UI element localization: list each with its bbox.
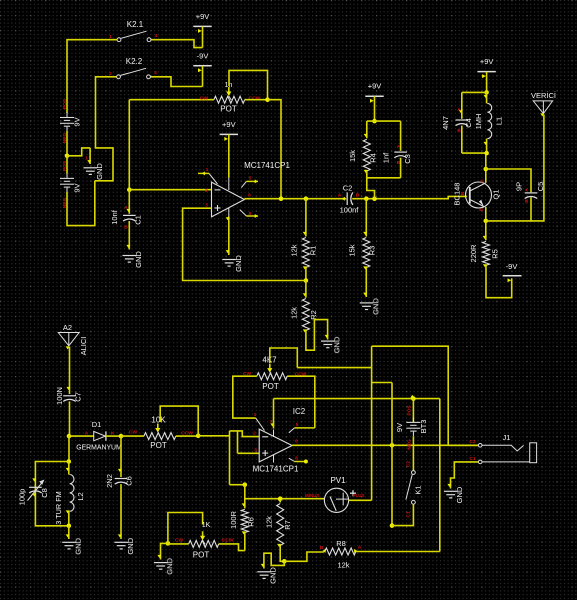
wire Q1 emitter [485, 207, 487, 221]
svg-text:15k: 15k [348, 244, 357, 256]
svg-text:L2: L2 [76, 492, 85, 500]
wire node to POT2 CW [121, 435, 144, 437]
svg-text:C: C [480, 179, 486, 183]
svg-text:12k: 12k [290, 244, 299, 256]
svg-text:B: B [320, 545, 324, 551]
ground GND8 (C6) [114, 542, 128, 549]
power -9V (R5) [503, 262, 522, 283]
wire POT3 CCW to R6 bottom [219, 544, 245, 551]
svg-text:R8: R8 [336, 539, 346, 548]
C8 tick bottom [32, 493, 36, 496]
wire R8 left lead [284, 552, 324, 561]
U1 pin7 white lead [228, 178, 230, 191]
resistor R4 [363, 139, 370, 171]
svg-text:B: B [460, 191, 466, 195]
POT4K7 wiper [267, 364, 272, 377]
junction R7 top [278, 496, 283, 501]
svg-text:B: B [457, 128, 461, 134]
svg-text:R7: R7 [283, 520, 292, 530]
wire K2.1 pin4 to +9V [151, 40, 203, 48]
svg-text:R2: R2 [309, 310, 318, 320]
potentiometer POT2 body [144, 433, 176, 440]
L1 tick top [484, 95, 488, 98]
wire R7 bottom lead [280, 546, 284, 562]
wire GND1 lead [89, 148, 91, 164]
J1 sleeve terminal circle [478, 460, 482, 464]
wire jog to pin2 [230, 431, 259, 437]
battery BT3 9V [406, 417, 420, 436]
svg-text:9P: 9P [515, 182, 524, 191]
svg-text:12k: 12k [265, 516, 274, 528]
POT3 wiper [200, 531, 205, 544]
svg-text:4N7: 4N7 [441, 116, 450, 130]
svg-text:3: 3 [254, 448, 257, 454]
power +9V (tank) [477, 57, 495, 92]
antenna A1 VERICI [533, 101, 552, 114]
svg-text:K2.2: K2.2 [126, 57, 143, 66]
junction D1/C6/POT2 [119, 434, 124, 439]
R4 tick bottom [364, 170, 368, 173]
svg-text:C7: C7 [74, 392, 83, 402]
svg-text:8: 8 [295, 456, 298, 462]
svg-text:C2: C2 [406, 461, 412, 468]
resistor R5 [483, 241, 490, 265]
wire R5 to -9V [486, 265, 512, 297]
wire POT2 wiper loop [160, 406, 198, 436]
wire tank bottom bar [462, 152, 487, 154]
resistor R8 [325, 548, 356, 555]
svg-text:K2.1: K2.1 [127, 20, 144, 29]
wire rail to IC2 pin7 [273, 399, 275, 429]
R5 tick top [483, 236, 487, 239]
svg-text:2N2: 2N2 [105, 474, 114, 488]
svg-text:C2: C2 [469, 439, 476, 445]
svg-text:6: 6 [248, 193, 251, 199]
svg-text:15k: 15k [348, 150, 357, 162]
svg-text:R4: R4 [369, 153, 378, 163]
svg-text:CW: CW [200, 96, 209, 102]
wire POT1 wiper loop [229, 70, 268, 99]
wire node to D1 anode [69, 435, 94, 437]
wire battery B1 plus to K2.1 pin1 [67, 40, 117, 113]
capacitor C7 [63, 396, 76, 402]
R1 tick top [303, 232, 307, 235]
wire Q1 collector [485, 169, 487, 183]
svg-text:GND: GND [165, 557, 174, 574]
junction tank2 bottom [67, 524, 72, 529]
svg-text:POT: POT [150, 441, 167, 450]
op-amp U1 MC1741CP1 [212, 182, 245, 217]
wire pin3 horizontal [238, 452, 260, 454]
C2 tick A [342, 197, 345, 201]
capacitor C4 [456, 120, 469, 126]
svg-text:GND: GND [134, 251, 143, 268]
svg-text:C8: C8 [40, 488, 49, 498]
svg-text:B: B [524, 199, 530, 203]
ground GND3 (C1) [123, 256, 137, 263]
IC2 pin1 stub [256, 418, 265, 430]
svg-text:10nf: 10nf [110, 209, 119, 225]
potentiometer POT1 body [214, 96, 245, 103]
junction R6 top node [243, 482, 248, 487]
wire C3 bottom lead [400, 158, 402, 178]
wire antenna to emitter node [531, 115, 544, 221]
resistor R1 [302, 238, 309, 268]
wire node to battery B2 plus [66, 156, 68, 174]
antenna A2 tick [66, 346, 70, 349]
L2 tick top [66, 468, 70, 471]
wire R3 to ground [365, 268, 367, 298]
svg-text:L1: L1 [495, 117, 504, 125]
wire IC2 output row [292, 444, 478, 446]
wire C1 bottom lead [128, 221, 130, 250]
svg-text:C2: C2 [343, 184, 353, 193]
wire C4 top lead [461, 92, 463, 118]
svg-text:A: A [85, 431, 89, 437]
svg-text:100nf: 100nf [340, 206, 360, 215]
svg-text:POS: POS [62, 98, 68, 109]
R7 tick top [277, 498, 281, 501]
R4 tick top [364, 134, 368, 137]
svg-text:C1: C1 [406, 511, 412, 518]
wire C4 bottom lead [461, 126, 463, 154]
svg-text:+9V: +9V [196, 12, 210, 21]
svg-text:4: 4 [155, 33, 158, 39]
svg-text:1: 1 [254, 412, 257, 418]
GND1 lead end tick [87, 160, 91, 163]
svg-text:POT: POT [220, 105, 237, 114]
svg-text:GND: GND [269, 567, 278, 584]
R3 tick top [363, 232, 367, 235]
GND10 tick [261, 564, 265, 567]
svg-text:GND: GND [371, 298, 380, 315]
wire POT3 gnd branch [161, 543, 168, 559]
junction emitter/C5/R5 [484, 219, 489, 224]
svg-text:GERMANYUM: GERMANYUM [76, 445, 122, 452]
capacitor C6 [115, 479, 128, 485]
svg-text:+9V: +9V [222, 120, 236, 129]
wire C7 to diode node [69, 401, 71, 436]
battery B1 9V [60, 113, 74, 132]
wire emitter node to C5 bottom [486, 197, 531, 221]
wire node to GND10 [264, 553, 284, 568]
R7 tick bottom [277, 544, 281, 547]
wire K2.2 pin2 ground box [95, 77, 117, 181]
R6 tick top [242, 503, 246, 506]
wire collector node to tank [485, 153, 487, 169]
svg-text:-9V: -9V [506, 262, 518, 271]
potentiometer POT3 body [189, 540, 219, 547]
svg-text:R5: R5 [491, 249, 500, 259]
antenna tick [540, 113, 544, 116]
wire R1 top lead [305, 199, 307, 237]
resistor R6 [241, 509, 248, 532]
svg-text:CW: CW [175, 537, 184, 543]
wire BT3 minus to K1 [412, 436, 414, 470]
svg-text:D1: D1 [92, 420, 102, 429]
wire POT4K7 wiper loop [270, 348, 298, 368]
wire output row after C2 [352, 196, 467, 198]
junction collector/C5 [484, 167, 489, 172]
junction output/R4C3 [372, 196, 377, 201]
svg-text:5: 5 [296, 422, 299, 428]
wire battery B2 minus loop [67, 181, 95, 226]
svg-text:12k: 12k [337, 561, 349, 570]
IC2 pin7 tick [270, 423, 274, 426]
POT2 wiper [155, 424, 160, 437]
J1 body [530, 443, 537, 463]
svg-text:BT3: BT3 [419, 420, 428, 434]
capacitor C2 [347, 192, 353, 205]
U1 pin4 tick bottom [226, 250, 230, 253]
wire feedback loop to U1 pin3 [183, 208, 306, 280]
potentiometer POT4K7 body [257, 373, 287, 380]
svg-text:MC1741CP1: MC1741CP1 [253, 465, 299, 474]
wire R2 to ground [306, 320, 328, 351]
C6 tick A [118, 469, 122, 472]
wire bridge output to mid vertical [372, 382, 392, 384]
R6 tick bottom [242, 531, 246, 534]
wire rail right drop [439, 399, 441, 552]
wire U1 pin4 to ground [228, 217, 230, 256]
svg-text:GND: GND [126, 537, 135, 554]
wire R8 right lead [356, 551, 440, 553]
junction R1/R2/feedback [304, 278, 309, 283]
R8 tick left [323, 549, 326, 553]
svg-text:1: 1 [85, 156, 88, 162]
svg-text:10K: 10K [151, 416, 166, 425]
svg-text:A: A [397, 144, 401, 150]
svg-text:1K: 1K [202, 522, 211, 529]
wire R6 bottom lead [244, 533, 246, 551]
wire POT1 CW side [129, 99, 214, 101]
inductor L1 [487, 92, 492, 153]
svg-text:POS: POS [407, 405, 413, 416]
U1 pin8 stub [240, 210, 258, 216]
wire collector node to C5 top [486, 169, 531, 192]
J1 tip terminal circle [478, 444, 482, 448]
capacitor C3 [394, 152, 407, 158]
wire R2 top lead [305, 281, 307, 298]
resistor R2 [302, 299, 309, 331]
wire R4C3 top bar [367, 120, 401, 122]
svg-text:1nf: 1nf [382, 152, 391, 163]
junction tank bottom [484, 151, 489, 156]
wire PV1 plus to mid vertical [349, 499, 372, 501]
meter PV1 [324, 488, 356, 512]
junction C1/pin2 node [127, 187, 132, 192]
svg-text:GND: GND [74, 537, 83, 554]
ground GND5 (R2) [321, 341, 335, 348]
R2 tick top [303, 293, 307, 296]
wire pin3 riser [237, 431, 239, 453]
svg-text:CW: CW [129, 429, 138, 435]
wire R4C3 to output node [367, 178, 375, 199]
wire BT3 plus lead [412, 399, 414, 422]
wire POT3 wiper loop [168, 513, 203, 544]
svg-text:GND: GND [234, 255, 243, 272]
tank2 GND tick [66, 534, 70, 537]
junction POT3 CW/gnd [166, 541, 171, 546]
wire POT3 CW wire [168, 543, 189, 545]
svg-text:8: 8 [249, 211, 252, 217]
wire POT4K7 CCW to IC2 pin5 [287, 376, 315, 428]
wire node to C6 [120, 436, 122, 477]
U1 pin4 white lead [228, 208, 230, 217]
R2 GND tick [325, 335, 329, 338]
svg-text:CCW: CCW [222, 537, 234, 543]
svg-text:Q1: Q1 [492, 189, 501, 199]
svg-text:J1: J1 [503, 433, 511, 442]
wire input node to R6 node [230, 484, 245, 486]
capacitor C1 [123, 215, 136, 221]
svg-text:R3: R3 [368, 246, 377, 256]
svg-text:NEG: NEG [407, 439, 413, 450]
svg-text:100p: 100p [18, 489, 27, 506]
ground GND4 (U1 pin4) [222, 260, 236, 267]
wire V+ rail [274, 398, 440, 400]
svg-text:2: 2 [205, 188, 208, 194]
wire input node riser [229, 431, 231, 485]
IC2 pin4 lead [273, 455, 275, 463]
R2 tick bottom [303, 329, 307, 332]
diode D1 [94, 431, 106, 440]
junction K1 bottom node [390, 523, 395, 528]
wire POT2 junction to IC2 input node [198, 435, 229, 437]
svg-text:POT: POT [262, 382, 279, 391]
wire R7 top lead [279, 499, 281, 503]
svg-text:A: A [338, 193, 342, 199]
svg-text:C6: C6 [125, 476, 134, 486]
C7 tick A [66, 387, 70, 390]
svg-text:9V: 9V [395, 423, 404, 432]
wire mid long vertical [371, 346, 373, 500]
svg-text:MC1741CP1: MC1741CP1 [244, 161, 290, 170]
R8 tick right [354, 549, 357, 553]
wire tank2 to ground [68, 526, 70, 539]
C1 lead tick A [126, 209, 130, 212]
svg-text:9V: 9V [73, 117, 82, 126]
IC2 pin8 end dot [304, 460, 308, 464]
junction diode anode node [67, 434, 72, 439]
ground GND9 (POT3) [154, 563, 168, 570]
wire R6R7 node row [245, 498, 325, 500]
svg-text:100N: 100N [55, 387, 64, 405]
wire K1 branch vertical [391, 383, 393, 526]
wire R4 bottom lead [366, 171, 368, 178]
svg-text:A: A [358, 545, 362, 551]
L1 tick bottom [484, 142, 488, 145]
wire J1 sleeve to ground [451, 462, 479, 489]
svg-text:5: 5 [249, 176, 252, 182]
junction output/R1 [304, 196, 309, 201]
wire output to J1 tip [448, 444, 478, 446]
svg-text:+9V: +9V [368, 82, 382, 91]
svg-text:VERİCİ: VERİCİ [531, 91, 556, 100]
wire POT2 CCW to junction [176, 435, 198, 437]
wire node to U1 pin 2 [129, 189, 211, 191]
svg-text:3: 3 [154, 70, 157, 76]
power +9V (R4/C3) [365, 82, 383, 121]
ground GND10 (R7 node) [257, 572, 271, 579]
svg-text:A: A [524, 188, 530, 192]
transistor Q1 BC148 [466, 182, 492, 208]
svg-text:PV1: PV1 [330, 476, 346, 485]
R3 tick bottom [363, 266, 367, 269]
resistor R3 [363, 238, 370, 268]
R1 tick bottom [303, 266, 307, 269]
svg-text:C4: C4 [464, 118, 473, 128]
svg-text:C3: C3 [403, 154, 412, 164]
wire R6 top lead [244, 485, 246, 509]
IC2 pin5 stub [289, 428, 315, 433]
svg-text:3 TUR FM: 3 TUR FM [54, 491, 63, 525]
wire C3 top lead [400, 121, 402, 151]
power -9V (K2.2 feed) [193, 51, 211, 86]
junction POT1 CCW/wiper [265, 97, 270, 102]
svg-text:R1: R1 [309, 246, 318, 256]
svg-text:A2: A2 [63, 323, 72, 332]
svg-text:GND: GND [332, 336, 341, 353]
junction output/K1 branch [390, 443, 395, 448]
inductor L2 [69, 462, 74, 526]
wire R4C3 bottom bar [367, 177, 401, 179]
svg-text:9V: 9V [73, 183, 82, 192]
svg-text:B: B [356, 193, 360, 199]
IC2 pin7 lead [273, 430, 275, 438]
wire tank top bar [462, 91, 487, 93]
R5 tick bottom [483, 264, 487, 267]
svg-text:12k: 12k [290, 307, 299, 319]
switch K1 [406, 471, 415, 505]
wire POT1 junction to output node [268, 100, 282, 199]
wire node down to tank [68, 436, 70, 461]
BT3 lead tick [410, 395, 414, 398]
wire emitter to R5 [485, 221, 487, 240]
ground GND1 (battery mid) [84, 168, 98, 175]
svg-text:6: 6 [295, 439, 298, 445]
antenna A2 ALICI [58, 333, 79, 346]
wire D1 cathode to node [106, 435, 121, 437]
svg-text:7: 7 [270, 419, 273, 425]
svg-text:IC2: IC2 [293, 407, 306, 416]
svg-text:CCW: CCW [249, 96, 261, 102]
svg-text:ALICI: ALICI [79, 337, 88, 356]
IC2 pin8 stub [289, 458, 305, 461]
wire R1 bottom to feedback node [305, 268, 307, 281]
svg-text:1: 1 [206, 167, 209, 173]
C1 GND lead tick [126, 245, 130, 248]
svg-text:1MH: 1MH [474, 114, 483, 130]
C4 tick A [459, 110, 463, 113]
svg-text:GND: GND [95, 163, 104, 180]
L2 tick bottom [66, 510, 70, 513]
wire POT1 CCW to junction [245, 99, 268, 101]
wire A2 to C7 [69, 347, 71, 395]
C8 tick top [32, 478, 36, 481]
svg-text:220R: 220R [469, 244, 478, 263]
svg-text:A: A [457, 107, 461, 113]
svg-text:2: 2 [253, 431, 256, 437]
wire U1 output row [244, 198, 346, 200]
R3 GND tick [363, 293, 367, 296]
svg-text:POT: POT [193, 551, 210, 560]
wire K1 to node [392, 504, 413, 525]
junction rail/BT3 [411, 396, 416, 401]
svg-text:POS: POS [62, 160, 68, 171]
wire POT4K7 CW to IC2 pin1 [233, 376, 257, 418]
wire battery node to GND lead [67, 148, 90, 156]
